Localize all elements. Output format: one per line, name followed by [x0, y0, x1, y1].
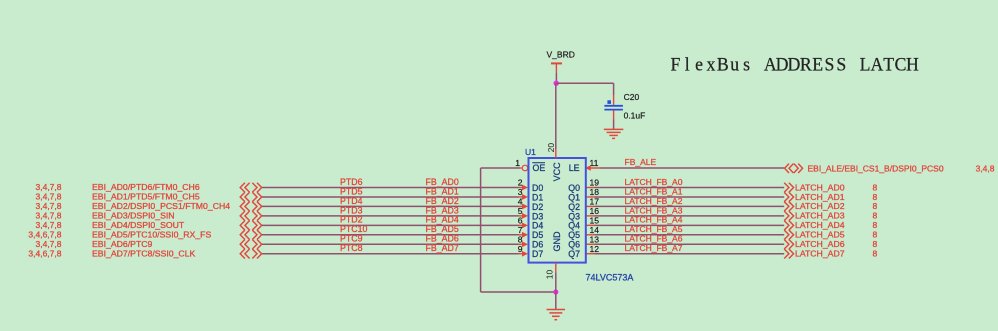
svg-text:A: A	[870, 54, 883, 76]
svg-text:e: e	[695, 54, 703, 76]
svg-text:9: 9	[518, 244, 523, 254]
svg-text:S: S	[836, 54, 846, 76]
svg-text:LATCH_FB_A7: LATCH_FB_A7	[625, 243, 683, 253]
svg-text:12: 12	[590, 244, 600, 254]
svg-text:74LVC573A: 74LVC573A	[586, 272, 634, 282]
svg-text:1: 1	[515, 158, 520, 168]
svg-text:FB_ALE: FB_ALE	[625, 157, 657, 167]
svg-text:D7: D7	[532, 249, 543, 259]
svg-text:D: D	[788, 54, 801, 76]
svg-text:3,4,6,7,8: 3,4,6,7,8	[28, 248, 61, 258]
svg-text:C: C	[895, 54, 907, 76]
svg-text:8: 8	[873, 249, 878, 259]
svg-text:u: u	[730, 54, 739, 76]
svg-text:10: 10	[545, 270, 555, 280]
svg-text:LATCH_AD7: LATCH_AD7	[795, 249, 845, 259]
svg-text:Q7: Q7	[568, 249, 580, 259]
svg-text:l: l	[685, 54, 690, 76]
svg-text:FB_AD7: FB_AD7	[426, 243, 459, 253]
svg-text:L: L	[860, 54, 871, 76]
svg-text:PTC8: PTC8	[340, 243, 363, 253]
svg-text:EBI_ALE/EBI_CS1_B/DSPI0_PCS0: EBI_ALE/EBI_CS1_B/DSPI0_PCS0	[808, 163, 944, 173]
svg-text:S: S	[825, 54, 835, 76]
svg-text:OE: OE	[533, 163, 546, 173]
svg-text:R: R	[800, 54, 812, 76]
svg-text:20: 20	[546, 143, 556, 153]
svg-text:3,4,8: 3,4,8	[976, 163, 995, 173]
svg-text:V_BRD: V_BRD	[547, 50, 575, 60]
svg-text:D: D	[776, 54, 789, 76]
svg-text:11: 11	[590, 158, 599, 168]
svg-text:F: F	[670, 54, 680, 76]
svg-text:s: s	[743, 54, 750, 76]
svg-text:E: E	[812, 54, 823, 76]
svg-text:x: x	[707, 54, 717, 76]
svg-text:B: B	[717, 54, 729, 76]
svg-text:T: T	[883, 54, 894, 76]
svg-text:H: H	[906, 54, 919, 76]
svg-text:C20: C20	[624, 92, 640, 102]
svg-text:VCC: VCC	[552, 162, 562, 182]
svg-text:GND: GND	[552, 231, 562, 252]
svg-text:0.1uF: 0.1uF	[624, 111, 646, 121]
svg-text:LE: LE	[569, 163, 580, 173]
svg-text:EBI_AD7/PTC8/SSI0_CLK: EBI_AD7/PTC8/SSI0_CLK	[92, 248, 196, 258]
svg-text:U1: U1	[525, 147, 536, 157]
